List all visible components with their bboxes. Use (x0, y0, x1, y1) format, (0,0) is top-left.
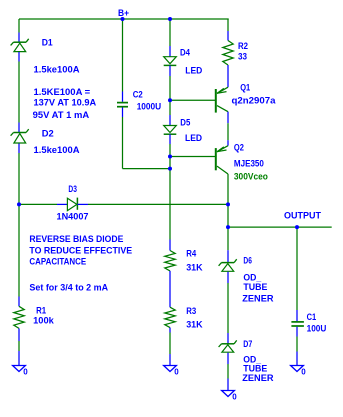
svg-text:R4: R4 (186, 248, 197, 259)
svg-text:MJE350: MJE350 (234, 158, 264, 169)
svg-text:ZENER: ZENER (242, 373, 273, 384)
svg-text:LED: LED (185, 133, 202, 144)
svg-text:D7: D7 (243, 339, 252, 350)
svg-text:D1: D1 (42, 38, 54, 49)
svg-text:OUTPUT: OUTPUT (284, 211, 321, 222)
svg-text:300Vceo: 300Vceo (234, 172, 268, 183)
svg-text:31K: 31K (186, 320, 203, 331)
svg-text:0: 0 (174, 368, 179, 377)
svg-text:33: 33 (238, 51, 247, 62)
svg-text:100k: 100k (33, 315, 54, 326)
svg-text:100U: 100U (307, 323, 327, 334)
svg-text:C1: C1 (307, 312, 317, 323)
svg-text:D5: D5 (180, 118, 191, 129)
svg-text:D2: D2 (42, 129, 54, 140)
svg-text:1N4007: 1N4007 (57, 212, 89, 223)
svg-text:1000U: 1000U (137, 102, 162, 113)
svg-text:0: 0 (23, 368, 28, 377)
svg-text:B+: B+ (118, 8, 129, 19)
svg-text:1.5ke100A: 1.5ke100A (34, 145, 80, 156)
svg-text:D6: D6 (243, 256, 252, 267)
svg-text:CAPACITANCE: CAPACITANCE (29, 257, 86, 268)
svg-text:137V AT 10.9A: 137V AT 10.9A (34, 97, 97, 108)
svg-text:31K: 31K (186, 262, 203, 273)
svg-text:D3: D3 (68, 184, 77, 195)
svg-text:0: 0 (232, 393, 237, 402)
svg-text:Q2: Q2 (234, 143, 244, 154)
svg-text:95V AT 1 mA: 95V AT 1 mA (33, 110, 90, 121)
svg-text:D4: D4 (180, 48, 191, 59)
svg-text:REVERSE BIAS DIODE: REVERSE BIAS DIODE (29, 234, 123, 245)
svg-text:0: 0 (301, 368, 306, 377)
svg-text:R3: R3 (186, 306, 196, 317)
svg-text:q2n2907a: q2n2907a (232, 96, 277, 107)
svg-text:Set for 3/4 to 2 mA: Set for 3/4 to 2 mA (29, 283, 108, 294)
svg-text:Q1: Q1 (240, 83, 251, 94)
svg-text:LED: LED (185, 66, 202, 77)
svg-text:TUBE: TUBE (243, 282, 267, 293)
svg-text:ZENER: ZENER (242, 293, 273, 304)
svg-text:1.5ke100A: 1.5ke100A (34, 65, 80, 76)
svg-text:C2: C2 (133, 89, 143, 100)
svg-text:TO REDUCE EFFECTIVE: TO REDUCE EFFECTIVE (29, 245, 132, 256)
